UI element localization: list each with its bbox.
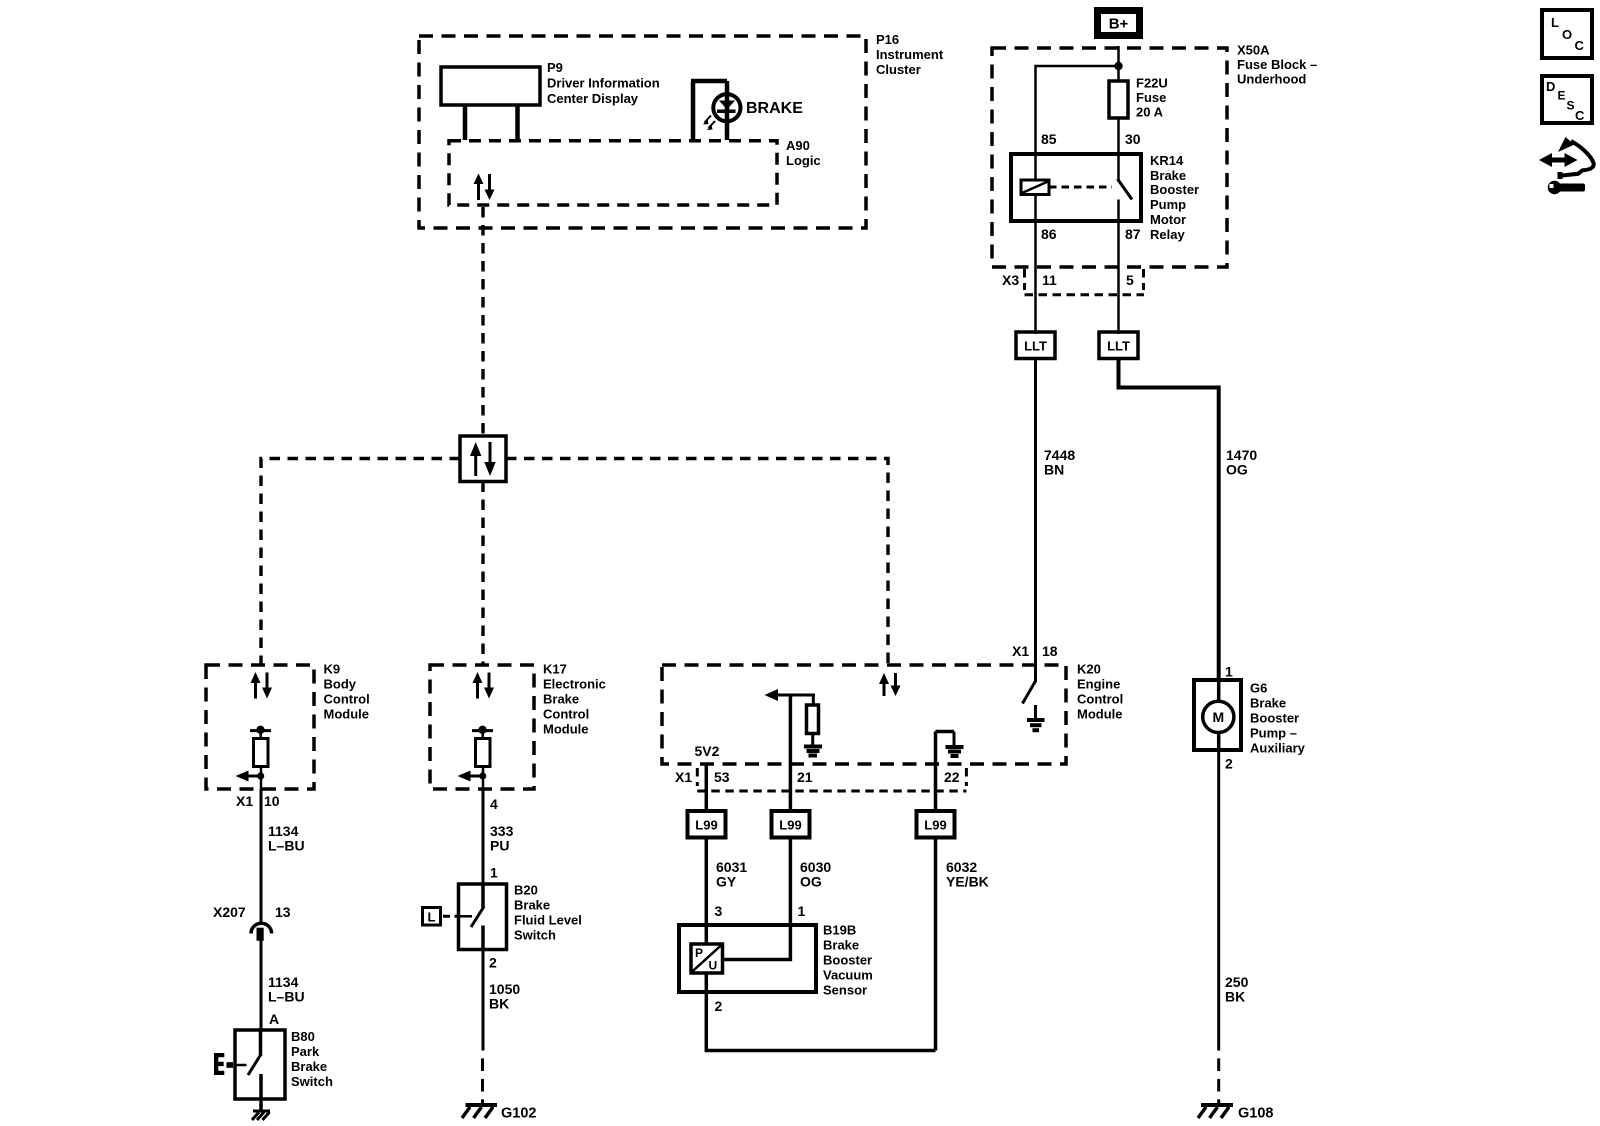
svg-text:Module: Module bbox=[1077, 707, 1123, 722]
svg-text:Brake: Brake bbox=[543, 692, 579, 707]
svg-text:X1: X1 bbox=[1012, 643, 1029, 659]
svg-text:GY: GY bbox=[716, 874, 737, 890]
svg-text:L99: L99 bbox=[695, 818, 717, 833]
svg-text:A: A bbox=[269, 1011, 279, 1027]
relay coil bbox=[1021, 154, 1049, 221]
svg-text:X1: X1 bbox=[236, 793, 253, 809]
relay coil-contact link bbox=[1049, 186, 1112, 189]
svg-text:X3: X3 bbox=[1002, 272, 1019, 288]
svg-text:Brake: Brake bbox=[291, 1059, 327, 1074]
svg-text:53: 53 bbox=[714, 769, 730, 785]
svg-text:U: U bbox=[709, 959, 718, 973]
svg-text:L–BU: L–BU bbox=[268, 989, 305, 1005]
splice L99 second bbox=[772, 791, 810, 838]
svg-text:4: 4 bbox=[490, 796, 498, 812]
svg-text:B19B: B19B bbox=[823, 923, 856, 938]
svg-text:Control: Control bbox=[324, 692, 370, 707]
connector X1 pin 10 labels bbox=[236, 793, 280, 809]
svg-text:85: 85 bbox=[1041, 131, 1057, 147]
wire relay 86 down bbox=[1034, 221, 1037, 334]
K17 internal resistor and output bbox=[458, 726, 494, 789]
engine control module K20 label bbox=[1077, 662, 1123, 722]
wire 1134 L-BU upper bbox=[261, 789, 305, 923]
wire 333 PU bbox=[483, 789, 514, 884]
splice pack LLT right bbox=[1099, 332, 1138, 359]
junction data link box bbox=[460, 436, 506, 482]
wire serial data junction to K20 bbox=[506, 459, 888, 666]
ground G102 bbox=[462, 1105, 536, 1122]
svg-text:1: 1 bbox=[798, 903, 806, 919]
svg-text:3: 3 bbox=[715, 903, 723, 919]
svg-text:P9: P9 bbox=[547, 60, 563, 75]
node junction dot bbox=[1114, 62, 1122, 70]
svg-text:Instrument: Instrument bbox=[876, 47, 944, 62]
svg-text:21: 21 bbox=[797, 769, 813, 785]
svg-text:30: 30 bbox=[1125, 131, 1141, 147]
svg-text:LLT: LLT bbox=[1024, 339, 1047, 354]
wire 7448 BN bbox=[1036, 359, 1076, 666]
wire P9 left leg bbox=[463, 105, 468, 140]
relay KR14 box bbox=[1011, 153, 1199, 242]
svg-text:87: 87 bbox=[1125, 226, 1141, 242]
svg-text:Cluster: Cluster bbox=[876, 62, 921, 77]
svg-text:B80: B80 bbox=[291, 1029, 315, 1044]
svg-text:X50A: X50A bbox=[1237, 43, 1270, 58]
svg-text:1: 1 bbox=[1225, 664, 1233, 680]
wire 6031 GY bbox=[706, 838, 747, 926]
svg-text:Brake: Brake bbox=[1150, 168, 1186, 183]
svg-text:X207: X207 bbox=[213, 904, 246, 920]
svg-text:Booster: Booster bbox=[1250, 711, 1299, 726]
svg-text:G6: G6 bbox=[1250, 681, 1267, 696]
fuse block X50A box bbox=[992, 43, 1317, 268]
wire 6032 YE/BK bbox=[936, 838, 989, 1051]
svg-text:Pump: Pump bbox=[1150, 197, 1186, 212]
svg-text:E: E bbox=[1558, 89, 1566, 103]
net 5V2 stub bbox=[695, 743, 720, 791]
svg-text:Brake: Brake bbox=[514, 898, 550, 913]
svg-text:1: 1 bbox=[490, 865, 498, 881]
svg-text:86: 86 bbox=[1041, 226, 1057, 242]
svg-text:2: 2 bbox=[489, 955, 497, 971]
wire B+ down bbox=[1117, 46, 1120, 81]
brake fluid level switch B20 box bbox=[459, 883, 582, 950]
wire 250 BK bbox=[1219, 750, 1249, 1051]
svg-text:Module: Module bbox=[543, 722, 589, 737]
splice pack LLT left bbox=[1016, 332, 1055, 359]
indicator LED BRAKE bbox=[703, 94, 803, 130]
electronic brake control module K17 box bbox=[430, 662, 606, 790]
svg-text:P16: P16 bbox=[876, 32, 899, 47]
svg-text:Booster: Booster bbox=[823, 953, 872, 968]
svg-text:BRAKE: BRAKE bbox=[746, 100, 803, 117]
wire serial data junction to K9 bbox=[261, 459, 460, 666]
svg-text:K9: K9 bbox=[324, 662, 341, 677]
svg-text:Brake: Brake bbox=[1250, 696, 1286, 711]
svg-text:Control: Control bbox=[1077, 692, 1123, 707]
wire fuse to relay pin 30 bbox=[1117, 118, 1120, 154]
svg-text:C: C bbox=[1575, 108, 1585, 123]
svg-text:10: 10 bbox=[264, 793, 280, 809]
svg-text:BN: BN bbox=[1044, 462, 1064, 478]
svg-text:Fuse Block –: Fuse Block – bbox=[1237, 57, 1317, 72]
K20 pin 22 ground bbox=[936, 732, 964, 792]
motor M in G6 bbox=[1203, 680, 1234, 750]
B20 float actuator L bbox=[423, 908, 473, 926]
wire 1470 OG bbox=[1119, 359, 1258, 681]
serial data arrows in K9 bbox=[251, 672, 273, 699]
svg-text:S: S bbox=[1567, 99, 1575, 113]
svg-text:X1: X1 bbox=[675, 769, 692, 785]
svg-text:Relay: Relay bbox=[1150, 227, 1185, 242]
svg-text:D: D bbox=[1546, 79, 1555, 94]
svg-text:YE/BK: YE/BK bbox=[946, 874, 989, 890]
logic block A90 box bbox=[449, 138, 821, 205]
wire 6030 OG bbox=[790, 838, 831, 926]
wire 1050 BK bbox=[483, 950, 520, 1051]
instrument cluster P16 box bbox=[419, 32, 944, 228]
wire serial data A90 to junction bbox=[481, 207, 484, 436]
svg-text:K17: K17 bbox=[543, 662, 567, 677]
svg-text:Control: Control bbox=[543, 707, 589, 722]
fuse F22U bbox=[1109, 76, 1168, 120]
brake booster vacuum sensor B19B box bbox=[679, 923, 873, 998]
icon DESC button bbox=[1542, 76, 1592, 123]
svg-text:Electronic: Electronic bbox=[543, 677, 606, 692]
B80 park lever actuator E bbox=[214, 1053, 247, 1075]
svg-text:Switch: Switch bbox=[514, 928, 556, 943]
connector X1 pin 18 labels bbox=[1012, 643, 1058, 659]
svg-text:G108: G108 bbox=[1238, 1106, 1273, 1122]
svg-text:L–BU: L–BU bbox=[268, 838, 305, 854]
body control module K9 box bbox=[206, 662, 370, 790]
K9 internal resistor and output bbox=[236, 726, 272, 789]
svg-text:K20: K20 bbox=[1077, 662, 1101, 677]
svg-text:Pump –: Pump – bbox=[1250, 726, 1297, 741]
svg-text:F22U: F22U bbox=[1136, 76, 1168, 91]
svg-text:20 A: 20 A bbox=[1136, 105, 1164, 120]
wire serial data junction to K17 bbox=[481, 482, 484, 666]
wire P9 right leg bbox=[515, 105, 520, 140]
svg-text:Vacuum: Vacuum bbox=[823, 968, 873, 983]
connector X1 row bbox=[675, 768, 966, 791]
svg-text:BK: BK bbox=[489, 996, 509, 1012]
B20 switch contact bbox=[471, 884, 484, 950]
svg-text:KR14: KR14 bbox=[1150, 153, 1184, 168]
wire B19B pin 2 return loop bbox=[706, 992, 935, 1051]
connector X3 row bbox=[1002, 269, 1144, 295]
svg-text:Sensor: Sensor bbox=[823, 983, 867, 998]
serial data arrows in K17 bbox=[473, 672, 495, 699]
B19B internal pressure transducer P/U bbox=[691, 925, 790, 992]
K20 switch to ground bbox=[1023, 665, 1045, 730]
svg-text:L99: L99 bbox=[779, 818, 801, 833]
wire 1134 L-BU lower bbox=[261, 941, 305, 1031]
svg-text:A90: A90 bbox=[786, 138, 810, 153]
svg-text:LLT: LLT bbox=[1107, 339, 1130, 354]
svg-text:B20: B20 bbox=[514, 883, 538, 898]
svg-text:Underhood: Underhood bbox=[1237, 72, 1306, 87]
connector X207 pin 13 bbox=[213, 904, 291, 941]
svg-text:C: C bbox=[1575, 38, 1585, 53]
splice L99 first bbox=[688, 791, 726, 838]
svg-text:5V2: 5V2 bbox=[695, 743, 720, 759]
svg-text:13: 13 bbox=[275, 904, 291, 920]
svg-text:OG: OG bbox=[800, 874, 822, 890]
svg-text:L: L bbox=[1551, 15, 1559, 30]
svg-text:BK: BK bbox=[1225, 989, 1245, 1005]
wire branch to relay coil bbox=[1036, 66, 1119, 154]
svg-text:Park: Park bbox=[291, 1044, 320, 1059]
svg-text:Engine: Engine bbox=[1077, 677, 1120, 692]
chassis ground below B80 bbox=[252, 1111, 270, 1120]
svg-text:Fluid Level: Fluid Level bbox=[514, 913, 582, 928]
svg-text:11: 11 bbox=[1042, 272, 1057, 288]
svg-text:Fuse: Fuse bbox=[1136, 90, 1166, 105]
svg-text:22: 22 bbox=[944, 769, 960, 785]
svg-text:L99: L99 bbox=[924, 818, 946, 833]
K20 pin 21 pull-up resistor to ground bbox=[765, 689, 823, 791]
svg-text:18: 18 bbox=[1042, 643, 1058, 659]
serial data arrows in A90 bbox=[474, 174, 495, 201]
svg-text:L: L bbox=[428, 910, 436, 925]
svg-text:Switch: Switch bbox=[291, 1074, 333, 1089]
wire dashed to G102 bbox=[481, 1051, 484, 1104]
svg-text:5: 5 bbox=[1126, 272, 1134, 288]
ground G108 bbox=[1198, 1105, 1273, 1122]
svg-text:G102: G102 bbox=[501, 1106, 536, 1122]
icon LOC button bbox=[1542, 10, 1592, 58]
wire dashed to G108 bbox=[1217, 1051, 1220, 1104]
svg-text:M: M bbox=[1212, 709, 1224, 725]
svg-text:P: P bbox=[695, 946, 703, 960]
svg-text:Module: Module bbox=[324, 707, 370, 722]
svg-text:Center Display: Center Display bbox=[547, 91, 639, 106]
engine control module K20 box bbox=[662, 665, 1066, 764]
svg-text:Logic: Logic bbox=[786, 153, 821, 168]
park brake switch B80 box bbox=[235, 1029, 333, 1099]
svg-text:Motor: Motor bbox=[1150, 212, 1186, 227]
wire BRAKE lamp feed bbox=[691, 81, 727, 140]
battery feed B+ bbox=[1098, 11, 1140, 36]
svg-text:O: O bbox=[1562, 27, 1572, 42]
svg-text:B+: B+ bbox=[1109, 16, 1129, 33]
brake booster pump G6 box bbox=[1194, 680, 1306, 756]
serial data arrows in K20 bbox=[879, 673, 901, 696]
svg-text:OG: OG bbox=[1226, 462, 1248, 478]
svg-text:Body: Body bbox=[324, 677, 357, 692]
svg-text:Driver Information: Driver Information bbox=[547, 76, 660, 91]
B80 switch contact bbox=[248, 1030, 261, 1111]
icon pan arrows bbox=[1539, 137, 1594, 194]
svg-text:2: 2 bbox=[1225, 756, 1233, 772]
svg-text:Booster: Booster bbox=[1150, 182, 1199, 197]
svg-text:2: 2 bbox=[715, 998, 723, 1014]
display P9 bbox=[441, 60, 660, 106]
splice L99 third bbox=[917, 791, 955, 838]
relay switch contact bbox=[1118, 154, 1133, 221]
svg-text:Brake: Brake bbox=[823, 938, 859, 953]
svg-text:Auxiliary: Auxiliary bbox=[1250, 741, 1306, 756]
wire relay 87 down bbox=[1117, 221, 1120, 334]
svg-text:PU: PU bbox=[490, 838, 509, 854]
